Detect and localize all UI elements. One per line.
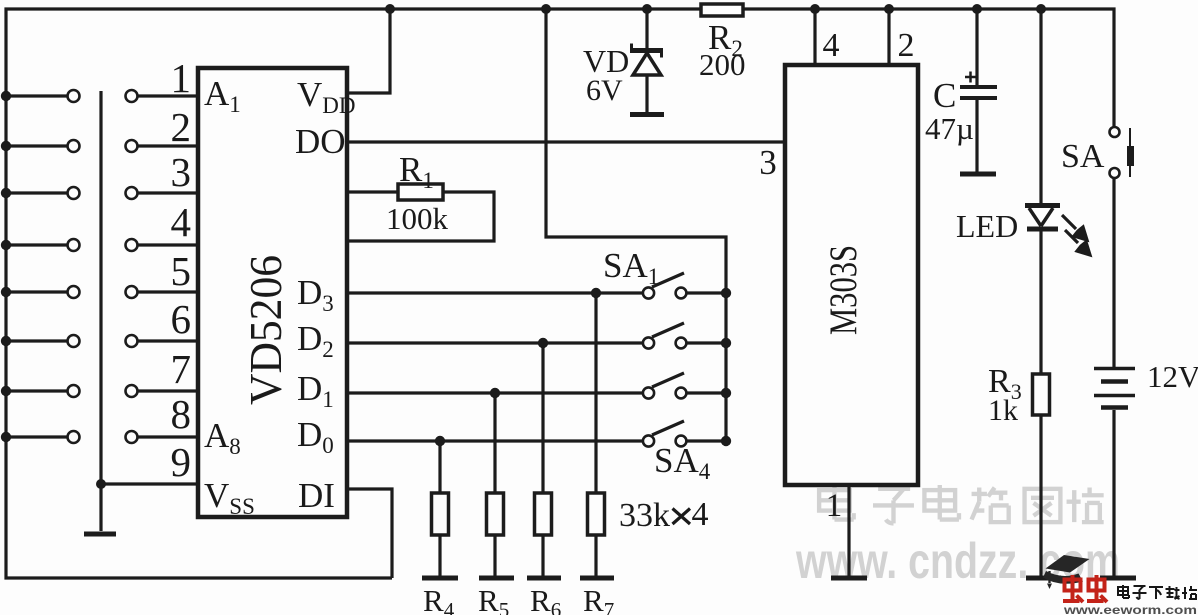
svg-text:SA1: SA1 [603, 246, 659, 289]
svg-text:4: 4 [823, 27, 840, 64]
svg-text:9: 9 [171, 439, 192, 485]
svg-text:R6: R6 [530, 583, 561, 615]
svg-text:100k: 100k [386, 201, 449, 236]
svg-text:A1: A1 [204, 74, 241, 117]
svg-text:D2: D2 [297, 319, 334, 362]
svg-text:4: 4 [171, 199, 192, 245]
svg-text:C: C [933, 76, 956, 115]
svg-text:LED: LED [956, 208, 1018, 244]
svg-text:DO: DO [295, 122, 346, 161]
svg-text:2: 2 [171, 104, 192, 150]
svg-text:R1: R1 [399, 150, 434, 193]
svg-text:D1: D1 [297, 369, 334, 412]
svg-text:SA4: SA4 [654, 441, 711, 484]
svg-text:D3: D3 [297, 273, 334, 316]
svg-text:33k: 33k [619, 497, 670, 534]
svg-text:SA: SA [1061, 138, 1105, 175]
svg-text:6: 6 [171, 296, 192, 342]
svg-text:3: 3 [171, 149, 192, 195]
svg-text:12V: 12V [1147, 359, 1198, 394]
svg-text:A8: A8 [204, 416, 241, 459]
svg-text:R4: R4 [423, 583, 455, 615]
svg-text:5: 5 [171, 248, 192, 294]
svg-text:4: 4 [692, 496, 709, 533]
svg-text:6V: 6V [586, 74, 623, 107]
svg-text:47µ: 47µ [925, 111, 974, 146]
svg-text:R5: R5 [478, 583, 509, 615]
svg-text:M303S: M303S [822, 245, 865, 335]
svg-text:7: 7 [171, 346, 192, 392]
svg-text:VSS: VSS [204, 476, 255, 519]
svg-text:2: 2 [898, 27, 915, 64]
svg-text:3: 3 [759, 143, 777, 182]
svg-text:200: 200 [699, 47, 746, 82]
svg-text:R7: R7 [583, 583, 614, 615]
svg-text:VD5206: VD5206 [241, 255, 291, 405]
svg-text:DI: DI [298, 476, 335, 515]
svg-text:1: 1 [171, 55, 192, 101]
svg-text:8: 8 [171, 391, 192, 437]
svg-text:www.eeworm.com: www.eeworm.com [1063, 603, 1197, 615]
svg-text:1k: 1k [988, 394, 1018, 427]
svg-text:1: 1 [826, 488, 843, 524]
svg-text:D0: D0 [297, 415, 334, 458]
